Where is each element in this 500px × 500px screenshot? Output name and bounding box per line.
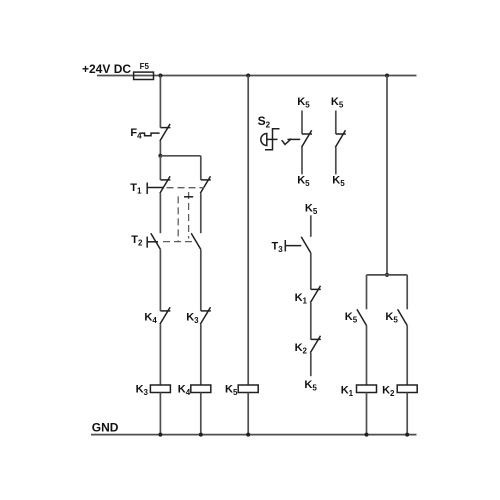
wire K4 contact to K3 coil <box>159 324 161 385</box>
contact K5 a (NC) <box>302 133 312 135</box>
coil K2 <box>397 385 417 393</box>
wire T3 to K1 contact <box>310 253 312 289</box>
wire K5 contact a bottom <box>301 147 303 174</box>
coil K1 <box>357 385 377 393</box>
actuator T2 link <box>147 241 158 243</box>
actuator T3 link <box>285 245 301 247</box>
node right split <box>385 273 389 277</box>
wire F4 to node <box>159 141 161 156</box>
svg-text:GND: GND <box>92 420 119 434</box>
contact K5 b (NC) <box>336 133 346 135</box>
node GND K2 <box>405 433 409 437</box>
actuator T1 tick <box>146 183 148 195</box>
node GND K5 <box>246 433 250 437</box>
wire rail to F4 <box>159 76 161 128</box>
contact T2 pole 1 (NO) <box>151 233 161 249</box>
contact T1 pole 2 (NC) <box>201 179 211 181</box>
mech link cross tick <box>184 196 193 198</box>
node GND K3 <box>158 433 162 437</box>
wire K4 coil to GND <box>200 393 202 435</box>
contact K1 (NC) <box>311 288 321 290</box>
wire T1 to T2 right <box>200 193 202 233</box>
coil K4 <box>191 385 211 393</box>
mech link vertical 2 (dashed) <box>188 192 190 239</box>
node below F4 <box>158 154 162 158</box>
wire K5 d to K2 coil <box>406 326 408 386</box>
wire rail to K5 coil <box>247 76 249 386</box>
contact K2 (NC) <box>311 338 321 340</box>
wire to K5 contact a <box>301 111 303 135</box>
mech link vertical 1 (dashed) <box>177 196 179 241</box>
wire node to T1 left pole <box>159 156 161 180</box>
contact K5 c (NO) <box>357 309 367 325</box>
actuator T1 link <box>147 187 163 189</box>
wire branch to T1 right pole <box>160 155 200 157</box>
wire K3 contact to K4 coil <box>200 324 202 385</box>
coil K3 <box>150 385 170 393</box>
mech link F4 (thermal) <box>141 133 160 136</box>
wire K3 coil to GND <box>159 393 161 435</box>
contact T1 pole 1 (NC) <box>160 179 170 181</box>
wire rail to right split <box>386 76 388 275</box>
wire split to K5 d <box>406 275 408 309</box>
pushbutton S2 head <box>261 134 267 146</box>
node top rail / right branch <box>385 74 389 78</box>
wire bottom GND rail <box>91 434 417 436</box>
pushbutton S2 bracket <box>265 129 280 150</box>
mech link S2 to contact <box>288 138 301 140</box>
mech link T2 poles (dashed) <box>163 241 196 243</box>
mech link T1 poles (dashed) <box>167 187 205 189</box>
wire T2 to K4 contact <box>159 249 161 311</box>
wire T2 to K3 contact <box>200 249 202 311</box>
fuse F5 <box>134 72 154 79</box>
coil K5 <box>238 385 258 393</box>
svg-text:F5: F5 <box>140 62 150 71</box>
node top rail / left branch <box>159 74 163 78</box>
contact K5 d (NO) <box>398 309 408 325</box>
wire split to K5 c <box>366 275 368 309</box>
actuator T2 tick <box>146 237 148 248</box>
actuator T3 tick <box>284 240 286 252</box>
contact F4 (NC) <box>160 127 170 129</box>
contact T2 pole 2 (NO) <box>191 233 201 249</box>
node top rail / K5 coil branch <box>246 74 250 78</box>
wire K2 coil to GND <box>406 393 408 435</box>
contact K3 (NC) <box>201 310 211 312</box>
wire top +24V rail <box>97 75 417 77</box>
pushbutton S2 stem <box>267 138 278 140</box>
wire K5 contact b bottom <box>335 147 337 174</box>
wire K1 to K2 contact <box>310 303 312 340</box>
wire right split bar <box>367 274 408 276</box>
wire K2 contact down <box>310 353 312 376</box>
node GND K4 <box>199 433 203 437</box>
svg-text:+24V DC: +24V DC <box>82 62 131 76</box>
wire T1 to T2 left <box>159 193 161 233</box>
wire K5 coil to GND <box>247 393 249 435</box>
wire K1 coil to GND <box>366 393 368 435</box>
contact K4 (NC) <box>160 310 170 312</box>
node GND K1 <box>365 433 369 437</box>
wire to K5 contact b <box>335 111 337 135</box>
pushbutton S2 return check <box>282 139 292 145</box>
contact T3 (NO) <box>301 237 311 253</box>
wire K5 c to K1 coil <box>366 326 368 386</box>
wire K5 to T3 <box>310 215 312 237</box>
